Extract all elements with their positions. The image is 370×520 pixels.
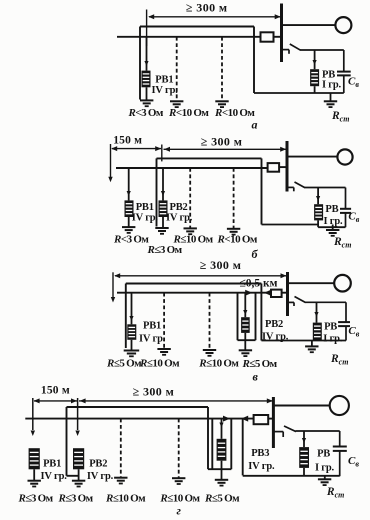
svg-text:R≤5 Ом: R≤5 Ом xyxy=(242,358,278,370)
svg-text:Rст: Rст xyxy=(326,486,344,500)
wire fuse to busbar (row a) xyxy=(274,36,282,38)
disconnector blade (row b) xyxy=(295,182,306,188)
arrester PB1 lead (row b) xyxy=(128,168,130,200)
svg-text:РВ: РВ xyxy=(325,204,338,215)
svg-text:РВ3: РВ3 xyxy=(251,448,269,459)
arrester PB lead (row b) xyxy=(317,188,319,205)
bottom ground bus (row g) xyxy=(243,475,340,477)
svg-text:150 м: 150 м xyxy=(113,134,142,146)
svg-text:IV гр.: IV гр. xyxy=(132,212,159,223)
busbar (row a) xyxy=(280,4,283,63)
svg-text:Rст: Rст xyxy=(331,110,349,124)
ground of PB3 (row g) xyxy=(215,479,228,481)
bottom ground bus (row v) xyxy=(261,340,346,342)
arrester PB3 lead (row g) xyxy=(221,419,223,439)
capacitor Cb (row b) xyxy=(340,208,351,210)
svg-text:РВ2: РВ2 xyxy=(265,319,283,330)
dimension line 300m (row g) xyxy=(79,400,273,402)
station ground (row b) xyxy=(326,229,339,231)
arrester PB lead (row a) xyxy=(314,50,316,69)
svg-text:I гр.: I гр. xyxy=(322,80,342,91)
svg-text:≥ 300 м: ≥ 300 м xyxy=(201,135,243,149)
busbar (row g) xyxy=(272,397,275,448)
svg-text:R≤10 Ом: R≤10 Ом xyxy=(173,234,214,246)
svg-text:в: в xyxy=(253,370,259,384)
wire busbar to machine (row a) xyxy=(282,24,336,26)
capacitor Cb (row v) xyxy=(338,321,350,323)
svg-text:R≤10 Ом: R≤10 Ом xyxy=(105,493,146,505)
station ground lead (row a) xyxy=(330,93,332,101)
ground of PB2 (row v) xyxy=(239,349,252,351)
pole 1 dashed down-lead (row b) xyxy=(189,168,191,228)
PB2 lead to cell bottom (row v) xyxy=(244,333,246,340)
svg-text:≥ 300 м: ≥ 300 м xyxy=(200,258,242,272)
svg-text:IV гр.: IV гр. xyxy=(166,212,193,223)
dimension line 300m (row b) xyxy=(164,148,287,150)
ground of pole 2 (row g) xyxy=(172,477,185,479)
capacitor Cb (row g) xyxy=(333,446,347,448)
svg-text:I гр.: I гр. xyxy=(323,334,343,345)
arrester PB I gr. (row a) xyxy=(310,69,319,86)
PB3 ground lead (row g) xyxy=(221,469,223,479)
PB2 lead to ground (row g) xyxy=(78,469,80,480)
rotating machine G (row g) xyxy=(330,396,349,415)
svg-text:IV гр.: IV гр. xyxy=(87,471,114,482)
dimension line 150m (row b) xyxy=(112,148,161,150)
disconnector hinge (row a) xyxy=(288,50,290,54)
disconnector blade (row g) xyxy=(284,426,296,432)
dimension tick left with arrow (row b) xyxy=(110,144,112,177)
arrester PB I gr. (row b) xyxy=(314,204,323,220)
fuse FU (row a) xyxy=(261,32,274,41)
cable start arrow left-pointing (row g) xyxy=(241,416,248,422)
wire switch to capacitor (row b) xyxy=(305,187,346,189)
cable terminal box (row g) xyxy=(254,415,269,424)
capacitor top lead (row b) xyxy=(345,188,347,209)
PB lead to bottom bus (row g) xyxy=(303,468,305,476)
arrester PB2 lead (row b) xyxy=(162,168,164,200)
svg-text:РВ1: РВ1 xyxy=(143,321,161,332)
svg-text:РВ: РВ xyxy=(317,449,330,460)
PB1 lead to ground (row v) xyxy=(131,340,133,351)
cable left drop to PB2 ground (row b) xyxy=(156,158,158,226)
svg-text:г: г xyxy=(177,504,182,518)
svg-text:РВ: РВ xyxy=(324,322,337,333)
PB1 lead to ground (row g) xyxy=(33,469,35,480)
arrester PB2 (row v) xyxy=(241,317,250,333)
pole 1 dashed down-lead (row a) xyxy=(176,37,178,101)
ground of pole 1 (row v) xyxy=(157,348,170,350)
capacitor top lead (row g) xyxy=(339,431,341,447)
cable length arrow left-pointing (row v) xyxy=(264,290,271,296)
dimension tick mid with arrow to PB2 (row g) xyxy=(77,398,79,430)
cable run line (row v) xyxy=(126,283,262,285)
overhead phase line (row b) xyxy=(116,167,268,169)
capacitor top lead (row a) xyxy=(343,50,345,72)
svg-text:R<3 Ом: R<3 Ом xyxy=(128,107,164,119)
arrester PB1 (row v) xyxy=(127,324,136,340)
arrester PB3 cell right wall (row g) xyxy=(230,419,232,470)
wire fuse to busbar (row b) xyxy=(279,166,287,168)
wire switch to capacitor (row g) xyxy=(296,430,340,432)
svg-text:R≤5 Ом: R≤5 Ом xyxy=(204,493,240,505)
ground of pole 1 (row b) xyxy=(184,227,197,229)
ground of pole 1 (row a) xyxy=(170,100,183,102)
disconnector blade (row v) xyxy=(295,297,306,303)
svg-text:б: б xyxy=(252,247,259,261)
svg-text:IV гр.: IV гр. xyxy=(152,85,179,96)
arrester PB I gr. (row v) xyxy=(313,323,322,341)
disconnector stub (row a) xyxy=(282,49,290,51)
cable right drop bottom to PB3 cell (row g) xyxy=(208,468,231,470)
arrester PB1 (row g) xyxy=(29,448,40,469)
arrester PB2 cell right wall (row v) xyxy=(255,293,257,341)
wire busbar to machine (row g) xyxy=(273,405,329,407)
arrester PB I gr. (row g) xyxy=(299,447,309,468)
svg-text:IV гр.: IV гр. xyxy=(139,334,166,345)
busbar (row b) xyxy=(286,141,289,192)
svg-text:Rст: Rст xyxy=(333,236,351,250)
ground of pole 2 (row v) xyxy=(203,349,216,351)
dimension line 300m (row v) xyxy=(115,275,287,277)
row v: approach with PB1 and cable entry with PB2, substation xyxy=(106,258,360,383)
arrester PB2 cell left wall (row v) xyxy=(237,293,239,341)
svg-text:Cв: Cв xyxy=(348,211,359,225)
arrester PB2 (row b) xyxy=(159,200,168,217)
ground of pole 1 (row g) xyxy=(114,477,127,479)
rotating machine G (row a) xyxy=(335,17,351,33)
wire switch to capacitor (row a) xyxy=(300,49,344,51)
arrester PB lead (row v) xyxy=(316,302,318,322)
svg-text:R≤3 Ом: R≤3 Ом xyxy=(58,493,94,505)
line end arrow right-pointing (row g) xyxy=(223,416,230,422)
PB2 lead to ground (row b) xyxy=(162,217,164,228)
overhead phase line (row g) xyxy=(25,418,253,420)
station ground (row g) xyxy=(318,478,331,480)
row b: approach with two arresters PB1 PB2 and substation xyxy=(108,134,359,261)
station ground (row a) xyxy=(324,100,337,102)
svg-text:IV гр.: IV гр. xyxy=(41,471,68,482)
dimension line 300m (row a) xyxy=(149,16,281,18)
cable right drop to substation ground bus (row b) xyxy=(261,158,263,224)
ground of PB2 (row b) xyxy=(155,227,168,229)
wire busbar to machine (row b) xyxy=(287,156,338,158)
arrester PB lead (row g) xyxy=(303,431,305,447)
PB lead to bottom bus (row a) xyxy=(314,86,316,93)
dimension line 150m (row g) xyxy=(34,400,77,402)
svg-text:≥ 300 м: ≥ 300 м xyxy=(133,385,175,399)
arrester PB1 lead (row a) xyxy=(146,37,148,71)
svg-text:R≤3 Ом: R≤3 Ом xyxy=(147,244,183,256)
bottom ground bus left (row b) xyxy=(262,224,319,226)
capacitor bottom lead (row g) xyxy=(339,451,341,476)
svg-text:РВ1: РВ1 xyxy=(43,459,61,470)
arrester PB3 (row g) xyxy=(217,439,227,461)
svg-text:а: а xyxy=(252,118,258,132)
cable right drop (row g) xyxy=(207,407,209,469)
PB1 lead to ground (row b) xyxy=(128,217,130,227)
disconnector stub (row b) xyxy=(287,186,294,188)
svg-text:R<10 Ом: R<10 Ом xyxy=(214,107,255,119)
svg-text:Cв: Cв xyxy=(348,76,359,90)
pole 1 dashed down-lead (row g) xyxy=(120,419,122,477)
disconnector stub (row g) xyxy=(273,431,283,433)
cable run line (row a) xyxy=(140,26,254,28)
svg-text:Rст: Rст xyxy=(330,353,348,367)
fuse FU (row b) xyxy=(268,163,280,172)
cable right drop to substation ground bus (row a) xyxy=(253,27,255,94)
arrester PB2 (row g) xyxy=(73,448,84,469)
row a: overhead line approach with arrester PB1 and substation xyxy=(117,1,359,132)
disconnector stub (row v) xyxy=(288,301,295,303)
capacitor Cb (row a) xyxy=(337,71,351,73)
capacitor top lead (row v) xyxy=(345,302,347,322)
cable left drop bottom jog to PB2 ground (row g) xyxy=(67,475,79,477)
arrester PB2 cell bottom (row v) xyxy=(238,339,256,341)
cable left drop to PB1 ground (row a) xyxy=(139,27,141,100)
rotating machine G (row v) xyxy=(334,275,351,292)
overhead phase line (row a) xyxy=(117,36,261,38)
rotating machine G (row b) xyxy=(337,149,352,164)
ground of pole 2 (row a) xyxy=(215,100,228,102)
cable right drop to bottom bus (row v) xyxy=(260,284,262,341)
PB3 lead to cell bottom (row g) xyxy=(221,461,223,470)
svg-text:R<3 Ом: R<3 Ом xyxy=(113,234,149,246)
disconnector hinge (row b) xyxy=(293,187,295,191)
pole 1 dashed down-lead (row v) xyxy=(163,293,165,349)
dimension tick with arrow (row v) xyxy=(112,272,114,297)
cable length arrow right-pointing (row v) xyxy=(245,290,252,296)
bottom ground bus loop (row b) xyxy=(318,226,345,228)
wire box to busbar (row g) xyxy=(268,418,273,420)
svg-text:R<10 Ом: R<10 Ом xyxy=(168,107,209,119)
station ground lead (row v) xyxy=(311,341,313,347)
arrester PB3 cell left wall (row g) xyxy=(211,419,213,470)
dimension tick middle (row b) xyxy=(161,145,163,162)
arrester PB2 lead (row v) xyxy=(244,293,246,318)
busbar (row v) xyxy=(286,272,289,316)
svg-text:РВ2: РВ2 xyxy=(89,459,107,470)
bottom ground bus (row a) xyxy=(254,92,344,94)
cable left drop to PB1 ground (row v) xyxy=(125,284,127,349)
station ground (row v) xyxy=(305,345,318,347)
arrester PB1 (row b) xyxy=(125,200,134,217)
dimension tick (row a) xyxy=(146,10,148,47)
pole 2 dashed down-lead (row a) xyxy=(221,37,223,101)
cable sheath drop to ground bus (row g) xyxy=(242,419,244,476)
cable left drop (row g) xyxy=(66,407,68,476)
svg-text:R≤3 Ом: R≤3 Ом xyxy=(18,493,54,505)
ground of PB1 (row a) xyxy=(140,99,153,101)
svg-text:R≤10 Ом: R≤10 Ом xyxy=(198,358,239,370)
disconnector hinge (row g) xyxy=(282,432,284,437)
svg-text:R<10 Ом: R<10 Ом xyxy=(217,234,258,246)
svg-text:IV гр.: IV гр. xyxy=(248,461,275,472)
svg-text:Cв: Cв xyxy=(348,455,359,469)
disconnector blade (row a) xyxy=(290,44,301,50)
pole 2 dashed down-lead (row g) xyxy=(178,419,180,478)
wire busbar to machine (row v) xyxy=(288,282,335,284)
station ground lead (row b) xyxy=(332,225,334,231)
pole 2 dashed down-lead (row b) xyxy=(233,168,235,228)
ground of PB1 (row g) xyxy=(28,480,41,482)
svg-text:R≤10 Ом: R≤10 Ом xyxy=(139,358,180,370)
overhead phase line (row v) xyxy=(117,292,271,294)
svg-text:I гр.: I гр. xyxy=(315,463,335,474)
disconnector hinge (row v) xyxy=(293,302,295,306)
cable terminal box (row v) xyxy=(271,290,282,297)
PB2 ground lead (row v) xyxy=(244,340,246,350)
svg-text:R≤5 Ом: R≤5 Ом xyxy=(106,358,142,370)
PB1 lead to ground (row a) xyxy=(146,87,148,100)
ground of pole 2 (row b) xyxy=(227,228,240,230)
station ground lead (row g) xyxy=(324,476,326,480)
svg-text:≥ 300 м: ≥ 300 м xyxy=(186,1,228,15)
ground of PB2 (row g) xyxy=(72,480,85,482)
cable run line (row g) xyxy=(67,406,209,408)
capacitor bottom lead (row v) xyxy=(345,326,347,340)
ground of PB1 (row b) xyxy=(122,226,135,228)
ground of PB1 (row v) xyxy=(124,350,140,352)
dimension tick left with arrow to PB1 (row g) xyxy=(32,398,34,430)
svg-text:150 м: 150 м xyxy=(41,385,70,397)
svg-text:Cв: Cв xyxy=(348,325,359,339)
wire box to busbar (row v) xyxy=(282,292,288,294)
row g: long approach with PB1 PB2, cable entry with PB3, substation xyxy=(18,385,360,518)
cable run line (row b) xyxy=(157,157,262,159)
wire switch to capacitor (row v) xyxy=(305,301,346,303)
pole 2 dashed down-lead (row v) xyxy=(209,293,211,350)
capacitor bottom lead (row a) xyxy=(343,75,345,93)
capacitor bottom lead (row b) xyxy=(345,213,347,227)
arrester PB1 (row a) xyxy=(142,71,151,88)
PB lead to bottom bus (row b) xyxy=(317,220,319,227)
arrester PB1 lead (row v) xyxy=(131,293,133,325)
